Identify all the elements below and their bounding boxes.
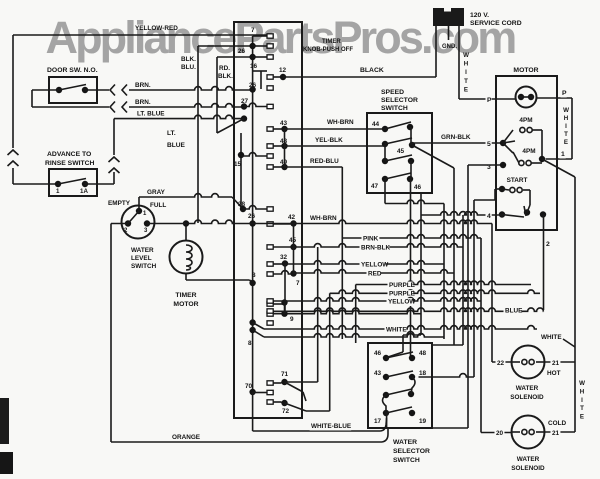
svg-text:WATER: WATER <box>517 456 540 463</box>
svg-text:RED-BLU: RED-BLU <box>310 158 339 165</box>
svg-text:LT. BLUE: LT. BLUE <box>137 111 165 118</box>
svg-text:72: 72 <box>282 408 290 415</box>
timer terminal 71 <box>273 371 288 385</box>
svg-text:WH-BRN: WH-BRN <box>327 119 354 126</box>
water selector contacts <box>374 350 427 425</box>
door switch DOOR SW. N.O. <box>47 67 98 103</box>
svg-text:26: 26 <box>238 48 246 55</box>
scan smudge bottom left corner <box>0 398 13 474</box>
timer internal link 42-7 <box>293 224 295 274</box>
svg-text:19: 19 <box>419 418 427 425</box>
connector chevrons BRN wire 1 <box>110 85 127 96</box>
svg-text:I: I <box>581 397 583 404</box>
svg-text:W: W <box>463 52 469 59</box>
svg-text:P: P <box>487 97 492 104</box>
wire speed 47 down <box>385 179 444 339</box>
timer contact 8 upper <box>249 272 256 286</box>
svg-text:44: 44 <box>372 121 380 128</box>
svg-text:42: 42 <box>288 214 296 221</box>
svg-text:PURPLE: PURPLE <box>389 291 416 298</box>
wire BRN (to timer 27) <box>129 99 244 107</box>
svg-text:WHITE: WHITE <box>541 334 562 341</box>
label 120V service cord <box>470 12 522 27</box>
timer terminal 48 <box>267 138 288 149</box>
svg-text:T: T <box>464 78 468 85</box>
svg-text:BLUE: BLUE <box>167 142 186 149</box>
svg-text:E: E <box>564 139 568 146</box>
bus wire x330 <box>329 293 331 411</box>
wire GND stub <box>442 26 457 50</box>
timer contact 26 upper <box>238 43 273 55</box>
svg-text:FULL: FULL <box>150 202 166 209</box>
wire white to motor P left <box>459 96 516 104</box>
svg-text:ORANGE: ORANGE <box>172 434 201 441</box>
bus wire x356 <box>355 285 357 344</box>
svg-text:LEVEL: LEVEL <box>131 255 152 262</box>
svg-text:SELECTOR: SELECTOR <box>381 97 418 104</box>
svg-text:SPEED: SPEED <box>381 89 404 96</box>
svg-text:1: 1 <box>56 188 60 195</box>
wire RD.BLK. <box>217 57 253 133</box>
wire YELLOW-RED (top border to timer contact 7) <box>13 25 268 148</box>
svg-text:WH-BRN: WH-BRN <box>310 215 337 222</box>
wire BLACK <box>283 26 436 77</box>
water level switch <box>108 200 166 270</box>
wire motor P right to bus <box>537 89 573 159</box>
svg-text:120 V.: 120 V. <box>470 12 489 19</box>
timer terminal 9 <box>267 310 421 323</box>
timer motor <box>170 241 203 309</box>
wire YELLOW <box>285 261 444 269</box>
bus wire x317 <box>317 247 319 382</box>
svg-text:PINK: PINK <box>363 236 379 243</box>
svg-text:RED: RED <box>368 271 382 278</box>
svg-text:TIMER: TIMER <box>322 39 341 45</box>
svg-text:WATER: WATER <box>131 247 154 254</box>
svg-text:45: 45 <box>397 148 405 155</box>
wire RED <box>294 270 454 278</box>
wire GRAY (water level 1 to timer 28) <box>139 189 243 211</box>
wire YELLOW 2 <box>267 298 481 306</box>
svg-text:WHITE-BLUE: WHITE-BLUE <box>311 423 352 430</box>
svg-text:4PM: 4PM <box>519 117 532 124</box>
svg-text:E: E <box>464 86 468 93</box>
wire solenoid 21 hot <box>545 360 576 377</box>
speed selector switch box <box>367 89 432 193</box>
timer internal link 43-49 <box>284 129 286 167</box>
wire speed 46 down to water sel 48 <box>410 179 412 358</box>
water selector switch box <box>368 343 432 464</box>
wire solenoid 22 <box>492 360 512 368</box>
svg-text:YELLOW: YELLOW <box>388 299 416 306</box>
svg-text:WHITE: WHITE <box>386 327 407 334</box>
svg-text:70: 70 <box>245 383 253 390</box>
motor start switch <box>499 205 546 218</box>
motor main winding 4PM <box>519 117 542 159</box>
wire door switch to BRN lead <box>85 89 109 91</box>
wire PURPLE 2 <box>330 290 540 298</box>
svg-text:I: I <box>465 69 467 76</box>
water solenoid COLD <box>511 416 545 473</box>
wire speed selector bus <box>388 193 421 357</box>
svg-text:BLACK: BLACK <box>360 67 384 74</box>
svg-text:DOOR SW. N.O.: DOOR SW. N.O. <box>47 67 98 74</box>
svg-text:TIMER: TIMER <box>175 292 196 299</box>
svg-text:ADVANCE TO: ADVANCE TO <box>47 151 91 158</box>
svg-text:7: 7 <box>251 27 255 34</box>
svg-text:4PM: 4PM <box>522 148 535 155</box>
svg-text:16: 16 <box>250 63 258 70</box>
svg-text:17: 17 <box>374 418 382 425</box>
timer terminal 7 lower <box>267 270 300 287</box>
wire BRN (to timer 26) <box>129 82 253 90</box>
timer terminal above 9 <box>267 299 288 313</box>
motor winding 4PM lower <box>513 148 542 166</box>
timer terminal 43 <box>267 120 288 132</box>
motor box <box>496 67 557 230</box>
svg-text:H: H <box>580 388 585 395</box>
svg-text:SWITCH: SWITCH <box>381 105 408 112</box>
svg-text:T: T <box>564 131 568 138</box>
timer contact 26 second <box>249 54 273 60</box>
timer contact 16 <box>250 63 273 90</box>
timer common feed wire <box>252 36 254 392</box>
svg-text:21: 21 <box>552 360 560 367</box>
timer contact 26 third <box>249 82 257 93</box>
wire GRN-BLK (speed to motor 5) <box>412 134 503 143</box>
wire PURPLE 1 <box>356 281 531 289</box>
motor box left edge restroke <box>495 76 497 230</box>
svg-text:48: 48 <box>419 350 427 357</box>
svg-text:BRN-BLK: BRN-BLK <box>361 245 390 252</box>
svg-text:PURPLE: PURPLE <box>389 282 416 289</box>
timer terminal 45 <box>267 237 297 250</box>
wire WHITE right bus <box>540 177 586 432</box>
svg-text:YEL-BLK: YEL-BLK <box>315 137 343 144</box>
svg-text:7: 7 <box>296 280 300 287</box>
timer terminal 42 <box>267 214 297 227</box>
wire YEL-BLK (timer 48 to speed) <box>285 137 386 146</box>
svg-text:32: 32 <box>280 254 288 261</box>
wire LT.BLUE riser <box>113 119 115 155</box>
timer internal link 32-9 <box>284 264 286 314</box>
svg-text:RINSE SWITCH: RINSE SWITCH <box>45 160 95 167</box>
svg-text:LT.: LT. <box>167 130 176 137</box>
svg-text:BLK.: BLK. <box>181 56 196 63</box>
svg-text:SELECTOR: SELECTOR <box>393 448 430 455</box>
svg-text:MOTOR: MOTOR <box>513 67 538 74</box>
svg-text:18: 18 <box>419 370 427 377</box>
wire left border lower segment <box>13 168 58 184</box>
svg-text:WATER: WATER <box>516 385 539 392</box>
wire WHITE-BLUE (70 to water sel 17) <box>253 392 387 431</box>
svg-text:YELLOW: YELLOW <box>361 262 389 269</box>
speed selector contacts <box>371 121 422 191</box>
timer block outline <box>234 22 302 418</box>
svg-text:47: 47 <box>371 183 379 190</box>
wire LT. BLUE (to timer) <box>114 111 247 134</box>
wire ORANGE (bottom border) <box>111 224 388 443</box>
svg-text:T: T <box>580 405 584 412</box>
svg-text:BLUE: BLUE <box>505 308 523 315</box>
timer terminal 12 <box>273 67 286 80</box>
power plug (service cord) <box>433 8 464 26</box>
svg-text:H: H <box>564 115 569 122</box>
wire 8 lower run <box>264 334 444 337</box>
svg-text:46: 46 <box>414 184 422 191</box>
svg-text:H: H <box>464 61 469 68</box>
wire rinse switch 1A to connector <box>85 172 114 184</box>
svg-text:46: 46 <box>374 350 382 357</box>
motor terminal 2 wire (BLUE) <box>544 215 551 311</box>
wire solenoid 21 cold <box>545 420 576 438</box>
wire timer motor bottom to timer 8 <box>186 274 253 284</box>
water solenoid HOT <box>510 346 544 402</box>
svg-text:26: 26 <box>248 213 256 220</box>
svg-text:KNOB-PUSH OFF: KNOB-PUSH OFF <box>303 47 353 53</box>
wire WH-BRN 42 run <box>147 215 492 362</box>
label LT. BLUE stacked <box>167 130 186 149</box>
motor terminal 4 wire <box>421 212 502 221</box>
wire 72 to bus <box>285 403 330 411</box>
timer contact 8 lower <box>248 319 273 347</box>
wire 71 to bus <box>285 382 318 401</box>
svg-text:20: 20 <box>496 430 504 437</box>
svg-text:EMPTY: EMPTY <box>108 200 131 207</box>
svg-text:GRN-BLK: GRN-BLK <box>441 134 471 141</box>
motor terminal 3 <box>432 162 506 428</box>
wire PINK <box>342 235 481 243</box>
svg-text:GRAY: GRAY <box>147 189 166 196</box>
connector chevrons BRN wire 2 <box>110 102 127 113</box>
wire speed 45 diagonal <box>412 145 454 345</box>
svg-text:1: 1 <box>561 151 565 158</box>
motor terminal 1 <box>539 150 575 177</box>
wire timer motor top <box>183 220 189 240</box>
timer contact 7 <box>251 27 273 38</box>
svg-text:MOTOR: MOTOR <box>173 301 198 308</box>
svg-text:P: P <box>562 90 567 97</box>
svg-text:21: 21 <box>552 430 560 437</box>
svg-text:SOLENOID: SOLENOID <box>511 465 545 472</box>
wire RED-BLU (timer 49 down) <box>285 158 343 339</box>
svg-text:BRN.: BRN. <box>135 82 151 89</box>
svg-text:I: I <box>565 123 567 130</box>
motor terminal 5 <box>486 130 516 153</box>
svg-text:W: W <box>563 107 569 114</box>
timer contact 15 <box>234 133 273 209</box>
svg-text:9: 9 <box>290 316 294 323</box>
timer terminal 49 <box>267 159 288 170</box>
svg-text:2: 2 <box>546 241 550 248</box>
svg-text:SWITCH: SWITCH <box>131 263 157 270</box>
svg-text:BLK.: BLK. <box>218 73 233 80</box>
svg-text:SERVICE CORD: SERVICE CORD <box>470 20 522 27</box>
decorative watermark (not labelled element) <box>46 12 516 63</box>
svg-text:BLU.: BLU. <box>181 64 196 71</box>
motor armature circle <box>516 87 537 108</box>
svg-text:5: 5 <box>487 141 491 148</box>
timer contact 27 <box>241 98 273 110</box>
svg-text:SWITCH: SWITCH <box>393 457 420 464</box>
svg-text:COLD: COLD <box>548 420 566 427</box>
wire BRN-BLK <box>294 244 464 252</box>
svg-text:22: 22 <box>497 360 505 367</box>
svg-text:43: 43 <box>374 370 382 377</box>
svg-text:YELLOW-RED: YELLOW-RED <box>135 25 178 32</box>
svg-text:START: START <box>507 177 528 184</box>
label timer knob push off <box>303 39 353 53</box>
wire WHITE from plug <box>459 26 469 99</box>
timer contact 26 fourth <box>248 213 256 227</box>
wire BLK.BLU. <box>181 46 253 223</box>
connector chevrons LT.BLUE riser <box>109 157 120 173</box>
svg-text:WATER: WATER <box>393 439 417 446</box>
wire WH-BRN (timer 43 to speed 44) <box>285 119 386 129</box>
svg-text:8: 8 <box>248 340 252 347</box>
svg-text:71: 71 <box>281 371 289 378</box>
bus wire x463 <box>432 215 463 345</box>
wire WHITE main <box>264 326 537 334</box>
timer terminal 72 <box>273 400 289 415</box>
svg-text:8: 8 <box>252 272 256 279</box>
svg-text:E: E <box>580 414 584 421</box>
svg-text:12: 12 <box>279 67 287 74</box>
svg-text:GND.: GND. <box>442 44 457 50</box>
wire water level 2 to orange bus <box>111 223 128 225</box>
timer contact 28 <box>238 201 273 212</box>
wire from door switch common (loop to BRN) <box>32 90 109 107</box>
wire solenoid 20 <box>481 430 512 438</box>
svg-text:W: W <box>579 380 585 387</box>
timer contact 70 <box>245 381 273 404</box>
wire BLUE <box>267 307 544 315</box>
advance to rinse switch <box>45 151 97 196</box>
bus wire x481 <box>480 238 482 433</box>
svg-text:HOT: HOT <box>547 370 561 377</box>
timer terminal 32 <box>267 254 288 267</box>
svg-text:BRN.: BRN. <box>135 99 151 106</box>
svg-text:SOLENOID: SOLENOID <box>510 394 544 401</box>
svg-text:1A: 1A <box>80 188 88 195</box>
svg-text:4: 4 <box>487 213 491 220</box>
svg-text:RD.: RD. <box>219 65 230 72</box>
motor start winding <box>419 177 531 377</box>
connector chevrons on left border wire <box>8 150 19 166</box>
